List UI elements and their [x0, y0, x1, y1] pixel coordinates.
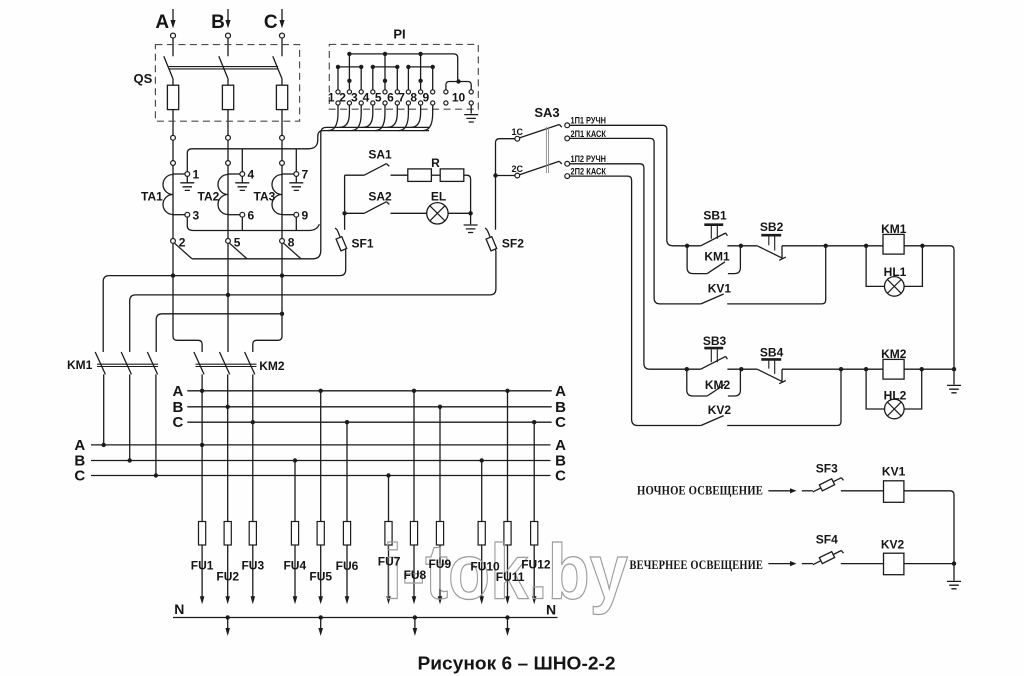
svg-text:2: 2 [339, 91, 346, 105]
contact KM2 aux self-hold loop [687, 369, 741, 396]
bus upper C [187, 421, 551, 423]
svg-text:Рисунок 6 – ШНО-2-2: Рисунок 6 – ШНО-2-2 [418, 653, 616, 673]
PI segment bus 4-6 [373, 66, 398, 68]
svg-text:SF4: SF4 [816, 533, 838, 547]
svg-text:KM2: KM2 [881, 347, 907, 361]
svg-text:SB1: SB1 [703, 209, 727, 223]
svg-text:FU5: FU5 [309, 569, 332, 583]
svg-text:1: 1 [193, 168, 200, 182]
arrowheads under fuses [200, 596, 205, 604]
PI terminal 10 ground lead [470, 105, 472, 113]
fuse feeder FU8 [413, 391, 415, 522]
switch SA1 [345, 164, 408, 176]
fuses FU1-FU12 bodies and arrows [199, 522, 538, 597]
svg-text:1П1 РУЧН: 1П1 РУЧН [571, 116, 607, 126]
rail line2 SF2 to KM1 pole2 [130, 251, 496, 352]
wire SA3 2P2 to KV2 row [570, 176, 701, 425]
PI terminal column 1 [337, 67, 339, 90]
wire phase C below QS [281, 110, 283, 239]
KM2 linkage [196, 364, 257, 366]
breaker SF2 blade [485, 228, 496, 251]
fuse FU9 [439, 522, 441, 597]
wire bus contacts 2-5-8 to PI [192, 127, 429, 258]
svg-text:SA2: SA2 [368, 189, 392, 203]
svg-text:10: 10 [452, 91, 466, 105]
fuse feeder FU11 [507, 391, 509, 522]
fuse FU1 [201, 522, 203, 597]
PI terminal column 7 [407, 67, 409, 90]
svg-text:6: 6 [387, 91, 394, 105]
pushbutton SB4 plunger [761, 358, 781, 361]
svg-text:4: 4 [363, 91, 370, 105]
PI top bus [349, 54, 457, 82]
PI harness wire 7 [398, 105, 408, 130]
svg-text:7: 7 [398, 91, 405, 105]
PI terminal column 5 [384, 54, 386, 90]
svg-text:FU4: FU4 [283, 558, 306, 572]
svg-text:B: B [211, 12, 225, 33]
wire TA2 terminal-4 riser [241, 149, 243, 172]
wire TA2 terminal 6 stub [228, 214, 240, 216]
ground KV column [947, 581, 961, 588]
PI terminal column 2 [348, 54, 350, 90]
svg-text:5: 5 [234, 236, 241, 250]
wire KV2 coil to junction [904, 563, 954, 565]
switch SA2 [345, 202, 427, 214]
bus upper A [187, 390, 551, 392]
contactor KM1 pole1 blade [95, 352, 105, 445]
KM1 linkage [97, 364, 158, 366]
wire SB2 to KM1 coil [782, 245, 883, 247]
svg-text:ВЕЧЕРНЕЕ ОСВЕЩЕНИЕ: ВЕЧЕРНЕЕ ОСВЕЩЕНИЕ [630, 557, 764, 572]
wire TA3 terminal 9 stub [282, 214, 294, 216]
coil KV1 [884, 481, 904, 503]
dashed box PI [329, 44, 478, 109]
fuse FU8 [413, 522, 415, 597]
rail line1 SF1 to KM1 pole1 [103, 251, 346, 352]
svg-text:5: 5 [375, 91, 382, 105]
breaker SF2 body [486, 237, 497, 251]
fuse FU6 [346, 522, 348, 597]
svg-text:SB3: SB3 [703, 334, 727, 348]
contactor KM2 pole2 blade [220, 352, 230, 522]
wire phase A below QS [172, 110, 174, 239]
breaker SF4 lead [802, 563, 813, 565]
fuse feeder FU12 [533, 422, 535, 521]
svg-text:FU8: FU8 [404, 568, 427, 582]
svg-text:SA3: SA3 [534, 105, 559, 120]
svg-text:6: 6 [248, 209, 255, 223]
ground EL [464, 225, 478, 233]
fuse FU5 [320, 522, 322, 597]
wire KM1 coil to right corner [904, 246, 954, 385]
svg-text:C: C [74, 468, 85, 485]
ground TA2 [235, 176, 249, 190]
svg-text:SA1: SA1 [368, 148, 392, 162]
lamp HL1 branch [866, 246, 922, 287]
svg-text:FU3: FU3 [241, 558, 264, 572]
svg-text:QS: QS [134, 71, 153, 86]
lamp HL2 branch [866, 369, 922, 409]
evening lighting arrow [768, 563, 790, 565]
resistor R body [408, 169, 432, 182]
breaker SF1 blade [335, 228, 346, 251]
svg-text:SF3: SF3 [816, 461, 838, 475]
coil KV2 [884, 553, 904, 575]
contactor KM2 pole1 blade [194, 352, 204, 522]
svg-text:KV1: KV1 [882, 464, 906, 478]
breaker SF4 blade [813, 551, 844, 565]
night lighting arrow [768, 490, 790, 492]
PI segment bus 7-9 [408, 66, 432, 68]
svg-text:FU6: FU6 [336, 559, 359, 573]
PI harness wire 8 [411, 105, 421, 127]
ground right column [947, 385, 961, 392]
pushbutton SB3 plunger [704, 347, 723, 350]
wire SA3 1P1 to row1 [570, 125, 701, 246]
svg-text:8: 8 [410, 91, 417, 105]
svg-text:PI: PI [393, 27, 405, 42]
wire bus terminals 1-4-7 to PI [187, 131, 429, 172]
svg-text:FU1: FU1 [191, 558, 214, 572]
svg-text:KV2: KV2 [881, 538, 905, 552]
PI harness wire 1 [328, 105, 338, 130]
svg-text:HL2: HL2 [884, 389, 907, 403]
wire EL right [448, 212, 471, 214]
QS linkage bar [169, 67, 278, 69]
disconnector QS blade pole B [219, 56, 228, 85]
breaker SF1 body [336, 237, 347, 251]
wire phase B below QS [227, 110, 229, 239]
svg-text:2П2 КАСК: 2П2 КАСК [571, 167, 607, 177]
svg-text:2С: 2С [512, 164, 524, 174]
arrowheads phase inputs [170, 20, 175, 28]
open terminal circles [171, 33, 570, 243]
svg-text:SB4: SB4 [760, 346, 784, 360]
coil KM1 [883, 234, 904, 254]
wire TA3 terminal-7 riser [295, 149, 297, 172]
wire KV1 coil to right drop [904, 491, 954, 581]
fuse FU12 [533, 522, 535, 597]
wire SF4 to KV2 coil [841, 563, 884, 565]
svg-text:N: N [546, 602, 556, 618]
svg-text:TA2: TA2 [198, 190, 220, 204]
fuse FU2 [227, 522, 229, 597]
PI terminal column 8 [420, 54, 422, 90]
svg-text:KM2: KM2 [705, 378, 731, 392]
svg-text:A: A [172, 383, 183, 400]
pushbutton SB3 blade [701, 356, 728, 369]
fuse FU11 [507, 522, 509, 597]
breaker SF3 blade [813, 478, 844, 492]
PI harness wire 5 [375, 105, 385, 130]
svg-text:HL1: HL1 [884, 265, 907, 279]
svg-text:2П1 КАСК: 2П1 КАСК [571, 129, 607, 139]
svg-text:НОЧНОЕ ОСВЕЩЕНИЕ: НОЧНОЕ ОСВЕЩЕНИЕ [637, 483, 763, 498]
wire TA3 terminal 7 stub [282, 173, 294, 175]
PI terminal column 4 [372, 67, 374, 90]
fuse feeder FU6 [346, 422, 348, 521]
fuse feeder FU5 [320, 391, 322, 522]
pushbutton SB2 blade [757, 246, 786, 260]
wire SB3 to SB4 [727, 368, 757, 370]
svg-text:3: 3 [351, 91, 358, 105]
svg-text:KM1: KM1 [881, 222, 907, 236]
wire TA3 terminal-9 drop [295, 217, 297, 230]
wire SA3 1P2 to row2 [570, 164, 701, 369]
SA3 linkage [546, 127, 548, 173]
svg-text:4: 4 [248, 168, 255, 182]
lamp HL1 [885, 277, 905, 297]
svg-text:1С: 1С [512, 127, 524, 137]
fuse feeder FU10 [481, 461, 483, 522]
fuse body QS pole C [281, 85, 283, 109]
disconnector QS blade pole C [273, 56, 282, 85]
svg-text:R: R [431, 156, 440, 170]
transformer TA3 secondary winding [272, 175, 282, 215]
disconnector QS blade pole A [164, 56, 173, 85]
PI terminal column 9 [432, 67, 434, 90]
fuse feeder FU9 [439, 407, 441, 522]
wire SF3 to KV1 coil [841, 490, 884, 492]
breaker SF3 body [819, 479, 834, 491]
wire SB4 to KM2 coil [782, 368, 883, 370]
N bus [173, 617, 558, 619]
wire TA1 terminal 3 stub [173, 214, 185, 216]
switch blade contact 8 [284, 243, 301, 258]
fuse FU3 [252, 522, 254, 597]
coil KM2 [883, 359, 904, 379]
svg-text:KV1: KV1 [708, 282, 732, 296]
svg-text:A: A [74, 437, 85, 454]
svg-text:KM2: KM2 [259, 359, 285, 373]
wire bus terminals 3-6-9 [187, 217, 319, 230]
svg-text:FU7: FU7 [378, 555, 401, 569]
bus lower A [91, 444, 551, 446]
bus lower C [91, 475, 551, 477]
PI harness wire 6 [387, 105, 397, 127]
svg-text:EL: EL [431, 189, 446, 203]
svg-text:KM1: KM1 [704, 249, 730, 263]
svg-text:SF1: SF1 [352, 236, 374, 250]
svg-text:C: C [264, 12, 278, 33]
pushbutton SB2 plunger [761, 234, 781, 237]
svg-text:2: 2 [179, 236, 186, 250]
fuse feeder FU7 [388, 476, 390, 522]
svg-text:FU11: FU11 [496, 570, 525, 584]
PI terminal column 6 [396, 67, 398, 90]
breaker SF2 top lead [496, 139, 515, 230]
svg-text:9: 9 [302, 209, 309, 223]
ground TA1 [180, 176, 194, 190]
contact KM1 aux self-hold loop [687, 246, 740, 274]
svg-text:SB2: SB2 [760, 220, 784, 234]
bus lower B [91, 460, 551, 462]
PI harness wire 4 [363, 105, 373, 127]
transformer TA2 secondary winding [218, 175, 228, 215]
ground PI [464, 115, 478, 122]
PI harness wire 3 [351, 105, 361, 130]
svg-text:KV2: KV2 [708, 403, 732, 417]
svg-text:FU2: FU2 [216, 569, 239, 583]
wire phase C to KM2 pole3 [253, 243, 282, 352]
svg-text:C: C [555, 468, 566, 485]
svg-text:C: C [172, 414, 183, 431]
svg-text:N: N [174, 601, 184, 617]
PI terminal 10 bridge [446, 82, 471, 90]
wire TA2 terminal 4 stub [228, 173, 240, 175]
svg-text:FU9: FU9 [428, 557, 451, 571]
fuse feeder FU4 [294, 461, 296, 522]
svg-text:8: 8 [288, 236, 295, 250]
breaker SF3 lead [802, 490, 813, 492]
switch blade contact 5 [230, 243, 247, 258]
wire phase A to control rail [173, 243, 202, 352]
wire SB1 to SB2 [727, 245, 757, 247]
pushbutton SB1 plunger [704, 223, 723, 226]
svg-text:3: 3 [193, 209, 200, 223]
dashed box QS [155, 45, 299, 122]
svg-text:C: C [555, 414, 566, 431]
lamp HL2 [885, 399, 905, 419]
wire SA1-SA2 branch vertical [344, 175, 346, 230]
fuse FU7 [388, 522, 390, 597]
fuse FU10 [481, 522, 483, 597]
wire phase A input [172, 9, 174, 56]
PI terminal column 3 [360, 67, 362, 90]
N bus tails [228, 618, 508, 629]
transformer TA1 secondary winding [163, 175, 173, 215]
wire phase B input [227, 9, 229, 56]
bus upper B [187, 406, 551, 408]
svg-text:TA3: TA3 [254, 190, 276, 204]
wire R to EL right leg [464, 175, 471, 224]
pushbutton SB4 blade [757, 369, 786, 384]
switch SA3 deck2 blade [520, 161, 562, 174]
svg-text:A: A [555, 437, 566, 454]
PI harness wire 2 [339, 105, 349, 127]
svg-text:A: A [555, 383, 566, 400]
svg-text:1: 1 [328, 91, 335, 105]
ground TA3 [289, 176, 303, 190]
svg-text:1П2 РУЧН: 1П2 РУЧН [571, 154, 607, 164]
fuse FU4 [294, 522, 296, 597]
svg-text:9: 9 [423, 91, 430, 105]
lamp EL [427, 203, 448, 224]
breaker SF4 body [819, 552, 834, 564]
wire phase B to KM2 pole2 [227, 243, 229, 352]
switch blade contact 2 [175, 243, 192, 258]
PI harness wire 9 [423, 105, 433, 130]
wire TA1 terminal 1 stub [173, 173, 185, 175]
svg-text:SF2: SF2 [502, 236, 524, 250]
switch SA3 deck1 blade [520, 125, 562, 138]
svg-text:TA1: TA1 [141, 190, 163, 204]
svg-text:KM1: KM1 [67, 358, 93, 372]
rail line3 phase C to KM1 pole3 [156, 314, 282, 352]
wire KM2 coil right [904, 368, 954, 370]
svg-text:7: 7 [302, 168, 309, 182]
contact KV1 [701, 246, 826, 304]
fuse body QS pole B [227, 85, 229, 109]
contactor KM1 pole3 blade [147, 352, 157, 476]
pushbutton SB1 blade [701, 233, 728, 246]
svg-text:FU12: FU12 [521, 558, 551, 572]
contactor KM1 pole2 blade [121, 352, 131, 461]
PI segment bus 1-3 [338, 66, 361, 68]
contactor KM2 pole3 blade [245, 352, 255, 522]
fuse body QS pole A [172, 85, 174, 109]
svg-text:A: A [155, 12, 169, 33]
wire phase C input [281, 9, 283, 56]
contact KV2 [701, 369, 841, 425]
wire SA3 2P1 to KV1 row [570, 138, 701, 304]
wire TA2 terminal-6 drop [241, 217, 243, 230]
